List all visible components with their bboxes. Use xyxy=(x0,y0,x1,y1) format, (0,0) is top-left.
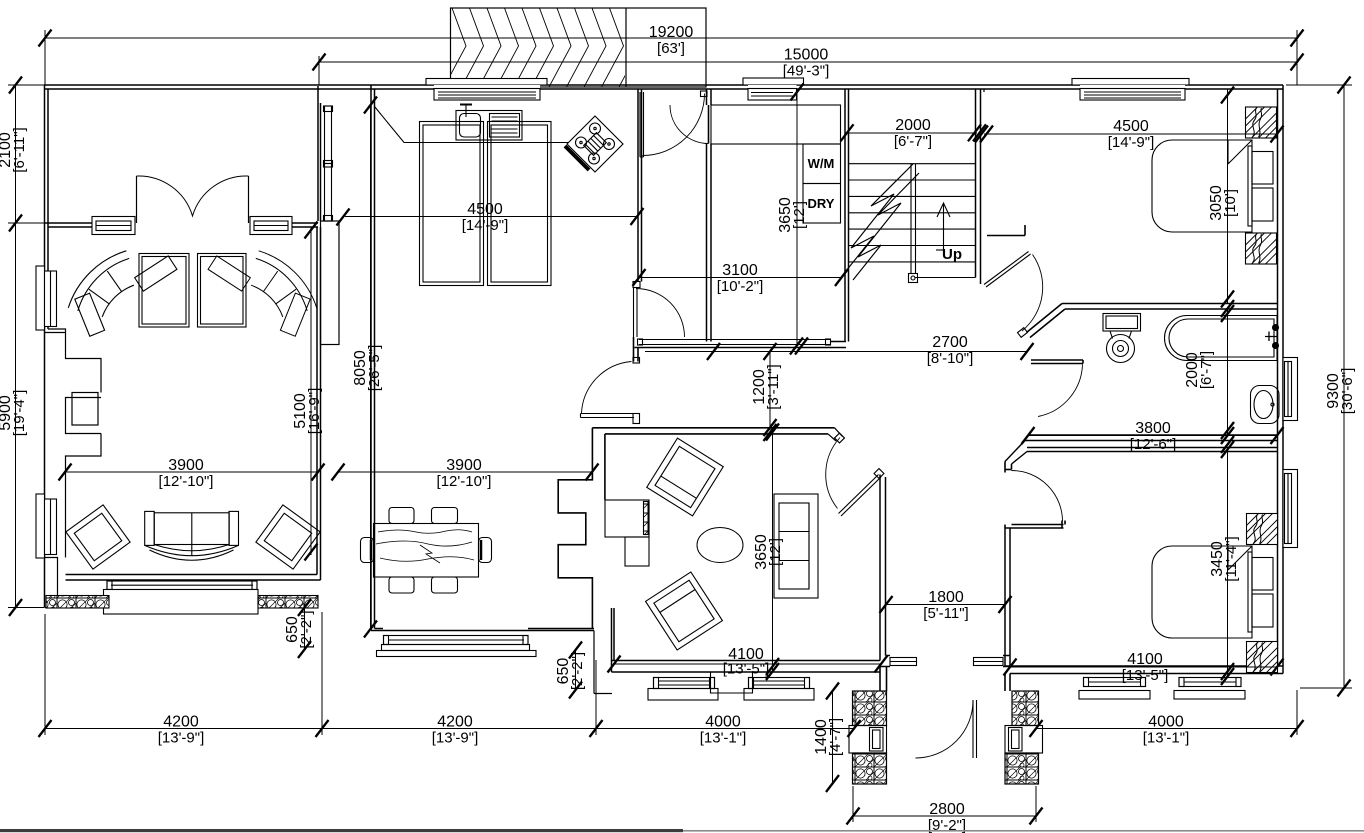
kitchen sink xyxy=(456,105,522,141)
sitting room armchair center-right xyxy=(198,254,247,328)
dim 3900a line xyxy=(65,471,318,473)
family room lower-left wall xyxy=(612,608,615,672)
kitchen worktop edge xyxy=(375,107,570,143)
dining wing SE corner lines xyxy=(594,631,612,694)
bedroom2 bed xyxy=(1152,546,1252,638)
porch column right jamb section xyxy=(1005,726,1043,754)
svg-text:2800: 2800 xyxy=(929,801,965,818)
bathroom chamfer wall xyxy=(1027,304,1066,338)
passage back door swing arc xyxy=(643,94,705,156)
svg-text:[12'-6"]: [12'-6"] xyxy=(1130,436,1177,453)
utility window (top wall) xyxy=(743,78,804,100)
sitting room right wall xyxy=(317,227,321,580)
kitchen-passage door swing arc xyxy=(636,289,685,338)
svg-text:[12']: [12'] xyxy=(767,538,784,566)
deck platform outline xyxy=(451,8,707,87)
dining bottom wall xyxy=(371,629,594,631)
family room window pier xyxy=(711,672,753,693)
svg-text:[16'-9"]: [16'-9"] xyxy=(306,388,323,435)
kitchen window (top wall) xyxy=(426,79,547,101)
entry sidelight window left xyxy=(92,217,135,235)
pebble plinth right xyxy=(258,596,318,609)
dim 650b line xyxy=(575,650,577,690)
dim 4000b line xyxy=(1036,728,1297,730)
kitchen island unit left xyxy=(420,122,484,286)
right exterior wall xyxy=(1282,85,1284,674)
entry double door swing arcs xyxy=(137,176,249,216)
dim 4200a/4200b/4000a line xyxy=(45,728,854,730)
bedroom2 left wall lower xyxy=(1005,528,1010,666)
bottom window border bar left xyxy=(0,829,683,832)
lounge sofa (bottom room) xyxy=(145,511,239,560)
hall clerestory window band xyxy=(638,339,831,345)
porch column left stone bottom xyxy=(853,753,887,784)
front door leaf xyxy=(973,700,977,758)
svg-text:[2'-2"]: [2'-2"] xyxy=(569,652,586,690)
family room TV cabinet xyxy=(605,500,649,566)
kitchen-passage door leaf xyxy=(634,288,638,338)
svg-text:2000: 2000 xyxy=(895,117,931,134)
stair stringer xyxy=(911,164,916,274)
svg-text:[13'-5"]: [13'-5"] xyxy=(1122,667,1169,684)
fireplace breast profile xyxy=(45,329,102,558)
bedroom1 door leaf xyxy=(984,252,1031,288)
dining table xyxy=(361,508,492,594)
bedroom2 bottom wall xyxy=(1005,666,1283,674)
garage right wall xyxy=(318,86,321,221)
svg-text:[14'-9"]: [14'-9"] xyxy=(1108,134,1155,151)
dim 2000 stairs line xyxy=(847,132,977,134)
stair treads xyxy=(849,164,976,278)
dim 2000 bath line xyxy=(1227,309,1229,435)
utility door swing arc xyxy=(670,105,709,144)
bedroom1 headboard cabinet xyxy=(1248,146,1273,226)
bathroom window (right wall) xyxy=(1283,358,1298,421)
washing machine box xyxy=(803,144,841,184)
svg-text:[63']: [63'] xyxy=(657,40,685,57)
bathroom basin xyxy=(1251,386,1280,424)
dim 2100 line xyxy=(15,85,17,223)
entry sidelight window right xyxy=(250,217,292,235)
utility counter xyxy=(711,105,841,144)
porch column right stone bottom xyxy=(1005,753,1039,784)
svg-text:3800: 3800 xyxy=(1135,420,1171,437)
bay window lower on left wall xyxy=(36,494,57,558)
bedroom1 window (top wall) xyxy=(1072,79,1189,101)
dim 3100 line xyxy=(639,277,842,279)
family room sofa xyxy=(774,494,818,598)
bedroom2 top wall xyxy=(1027,448,1278,452)
svg-text:[8'-10"]: [8'-10"] xyxy=(927,350,974,367)
stair break line xyxy=(846,164,919,280)
sitting room bottom wall xyxy=(66,575,321,581)
kitchen drainer xyxy=(490,114,520,138)
dryer box xyxy=(803,184,841,224)
svg-text:Up: Up xyxy=(942,246,962,263)
dim 1200 line xyxy=(769,352,771,431)
pebble plinth left xyxy=(46,596,109,609)
sitting room curved sofa left xyxy=(68,251,177,336)
dim 15000 line xyxy=(319,61,1297,63)
svg-text:4200: 4200 xyxy=(163,714,199,731)
passage back door jamb xyxy=(701,91,708,97)
stairs left wall xyxy=(845,89,849,342)
dining door swing arc xyxy=(582,362,632,414)
family room window right xyxy=(744,678,814,701)
svg-text:4200: 4200 xyxy=(437,714,473,731)
bedroom2 wardrobe upper xyxy=(1247,514,1278,545)
bottom window border bar right xyxy=(683,830,1364,832)
dim 4500 kitchen line xyxy=(345,216,637,218)
svg-text:[12']: [12'] xyxy=(791,201,808,229)
bedroom1/landing wall (right of stairs) opening ext xyxy=(983,89,985,92)
dining window sill box xyxy=(377,651,537,657)
hall 1200 passage walls done above; corridor bottom wall xyxy=(880,656,1010,667)
family room door swing arc xyxy=(826,438,840,509)
svg-text:[3'-11"]: [3'-11"] xyxy=(765,364,782,409)
family room ottoman xyxy=(697,528,743,563)
dim 5900 line xyxy=(15,223,17,608)
svg-text:4000: 4000 xyxy=(1148,714,1184,731)
svg-text:W/M: W/M xyxy=(808,156,835,171)
kitchen island unit right xyxy=(488,122,552,286)
passage pier upper xyxy=(634,337,639,362)
extension lines left xyxy=(8,84,44,86)
svg-text:[6'-7"]: [6'-7"] xyxy=(894,133,932,150)
family room castellated left wall xyxy=(558,428,592,629)
Up arrow xyxy=(936,203,950,250)
entry double door left leaf xyxy=(136,176,138,223)
porch column right stone top xyxy=(1012,691,1039,726)
bedroom2 left wall upper xyxy=(1005,462,1012,473)
svg-text:[13'-5"]: [13'-5"] xyxy=(723,661,770,678)
dim 1800 line xyxy=(886,604,1005,606)
svg-text:4100: 4100 xyxy=(1127,651,1163,668)
svg-text:[13'-9"]: [13'-9"] xyxy=(158,730,205,747)
svg-text:[26'-5"]: [26'-5"] xyxy=(366,345,383,392)
dim 3900b line xyxy=(338,471,592,473)
utility room left wall xyxy=(707,89,712,342)
bay window upper on left wall xyxy=(36,266,57,330)
porch column left stone top xyxy=(853,691,887,726)
bedroom2 door swing arc xyxy=(1012,471,1063,522)
dim 3650 family line xyxy=(772,429,774,672)
bedroom2 window left xyxy=(1079,678,1150,700)
dim 650a line xyxy=(304,608,306,650)
family room armchair upper (angled) xyxy=(647,438,724,516)
bathroom door jamb NW xyxy=(1018,328,1028,338)
deck divider line xyxy=(625,8,627,87)
sitting room curved sofa right xyxy=(208,251,317,336)
ticks xyxy=(39,30,52,47)
entry double door right leaf xyxy=(248,176,250,223)
bedroom1 wardrobe upper xyxy=(1246,107,1277,138)
kitchen-passage door jamb xyxy=(633,282,640,288)
bedroom2 nook wall xyxy=(1005,521,1065,529)
dim 2700 line xyxy=(645,351,1027,353)
svg-text:[11'-4"]: [11'-4"] xyxy=(1223,536,1240,581)
family room right wall xyxy=(880,475,886,661)
svg-text:3100: 3100 xyxy=(722,262,758,279)
svg-text:3900: 3900 xyxy=(446,457,482,474)
bedroom1 wardrobe lower xyxy=(1246,233,1277,264)
kitchen wing left wall xyxy=(371,85,375,631)
svg-text:[4'-7"]: [4'-7"] xyxy=(827,718,844,756)
front door swing arc xyxy=(916,701,974,759)
stair newel post xyxy=(909,274,918,283)
svg-text:[10']: [10'] xyxy=(1222,189,1239,217)
hob (rotated) xyxy=(567,116,623,172)
passage back door leaf xyxy=(640,92,644,157)
dim 4500 bed1 line xyxy=(984,133,1277,135)
hall top wall below stairs xyxy=(635,342,847,348)
extension lines bottom xyxy=(44,614,46,735)
svg-text:2700: 2700 xyxy=(932,334,968,351)
dim 4100 bed2 line xyxy=(1010,666,1277,668)
svg-text:[19'-4"]: [19'-4"] xyxy=(11,390,28,437)
kitchen right wall (to hall passage) xyxy=(638,89,642,282)
stairs right wall xyxy=(976,89,981,284)
bedroom2 window right xyxy=(1174,678,1245,700)
svg-text:[13'-9"]: [13'-9"] xyxy=(432,730,479,747)
svg-text:[10'-2"]: [10'-2"] xyxy=(717,278,764,295)
svg-text:4500: 4500 xyxy=(1113,118,1149,135)
svg-text:[13'-1"]: [13'-1"] xyxy=(1143,730,1190,747)
bath tub xyxy=(1165,316,1279,361)
top exterior wall inner line xyxy=(44,88,1283,90)
dim 3650 utility line xyxy=(796,89,798,346)
bathroom entry wall xyxy=(1031,360,1083,364)
utility door leaf xyxy=(708,105,710,144)
bedroom2 window (right wall) xyxy=(1283,470,1298,548)
extension lines right xyxy=(1286,84,1352,86)
dining door hinge jamb xyxy=(633,414,640,424)
dim 3050 line xyxy=(1227,89,1229,303)
dim 8050 line xyxy=(370,105,372,629)
svg-text:[49'-3"]: [49'-3"] xyxy=(783,63,830,80)
svg-text:[12'-10"]: [12'-10"] xyxy=(437,473,492,490)
dim 3450 line xyxy=(1227,452,1229,678)
top exterior wall outer line xyxy=(44,85,1283,674)
svg-text:3900: 3900 xyxy=(168,457,204,474)
bedroom1 bed xyxy=(1152,140,1252,232)
dining door leaf (open) xyxy=(581,414,635,418)
svg-text:15000: 15000 xyxy=(784,47,829,64)
family room door hinge jamb xyxy=(874,469,884,479)
dining bottom window xyxy=(382,636,530,651)
lounge armchair left (angled) xyxy=(66,505,130,569)
garage window on right wall xyxy=(324,106,333,221)
svg-text:DRY: DRY xyxy=(808,196,835,211)
bedroom2 chamfer wall xyxy=(1005,441,1027,465)
svg-text:[14'-9"]: [14'-9"] xyxy=(462,217,509,234)
extension lines top xyxy=(44,30,46,85)
svg-text:[30'-6"]: [30'-6"] xyxy=(1339,368,1356,415)
svg-text:[13'-1"]: [13'-1"] xyxy=(700,730,747,747)
deck chevron decking hatch xyxy=(444,8,641,87)
sitting room bay sill box xyxy=(104,590,259,615)
porch wall stub right xyxy=(1005,674,1010,692)
family room armchair lower (angled) xyxy=(646,572,723,650)
svg-text:19200: 19200 xyxy=(649,24,694,41)
svg-text:4000: 4000 xyxy=(705,714,741,731)
svg-text:[6'-11"]: [6'-11"] xyxy=(11,127,28,172)
bedroom1 SW corner wall xyxy=(987,225,1025,236)
hall sidelight window left xyxy=(890,658,917,666)
hall sidelight window right xyxy=(974,658,1004,666)
svg-text:1800: 1800 xyxy=(928,589,964,606)
family room door leaf (open diagonal) xyxy=(839,475,882,517)
sitting room bottom window glazing xyxy=(107,581,257,590)
dim 4100 family line xyxy=(614,663,881,665)
bathroom top wall xyxy=(1062,304,1278,310)
dim 9300 line xyxy=(1343,85,1345,688)
family room top wall chamfered end xyxy=(828,428,844,443)
bedroom2 wardrobe lower xyxy=(1247,642,1278,673)
sitting room bottom-left corner jog xyxy=(45,558,58,608)
dim 3800 line xyxy=(1028,435,1277,437)
porch wall stub left xyxy=(880,667,887,692)
left exterior wall xyxy=(44,85,46,608)
dining door jamb xyxy=(633,358,640,364)
svg-text:[6'-7"]: [6'-7"] xyxy=(1198,351,1215,389)
bathroom bottom wall / 3800 wall xyxy=(1025,435,1278,441)
svg-text:[2'-2"]: [2'-2"] xyxy=(298,610,315,648)
sitting room armchair center-left xyxy=(139,254,189,328)
garage/sitting divider wall xyxy=(45,223,319,227)
lounge armchair right (angled) xyxy=(256,505,320,569)
family room window left xyxy=(648,678,718,701)
bathroom door swing arc xyxy=(1038,365,1083,417)
bedroom1 door swing arc xyxy=(1022,255,1043,332)
hob front thick edge xyxy=(565,146,589,170)
family room bottom wall xyxy=(612,661,881,673)
bedroom2 headboard cabinet xyxy=(1248,552,1273,632)
bathroom toilet xyxy=(1103,314,1141,363)
porch column left jamb section xyxy=(849,726,887,754)
svg-text:[12'-10"]: [12'-10"] xyxy=(159,473,214,490)
dim 2800 line xyxy=(853,815,1036,817)
family room top wall xyxy=(592,428,834,500)
dim 1400 line xyxy=(832,691,834,784)
chimney block on sitting room right wall xyxy=(321,221,340,345)
dim 5100 line xyxy=(310,227,312,555)
dim 19200 line xyxy=(45,37,1297,39)
svg-text:4500: 4500 xyxy=(467,201,503,218)
svg-text:[5'-11"]: [5'-11"] xyxy=(923,605,968,622)
